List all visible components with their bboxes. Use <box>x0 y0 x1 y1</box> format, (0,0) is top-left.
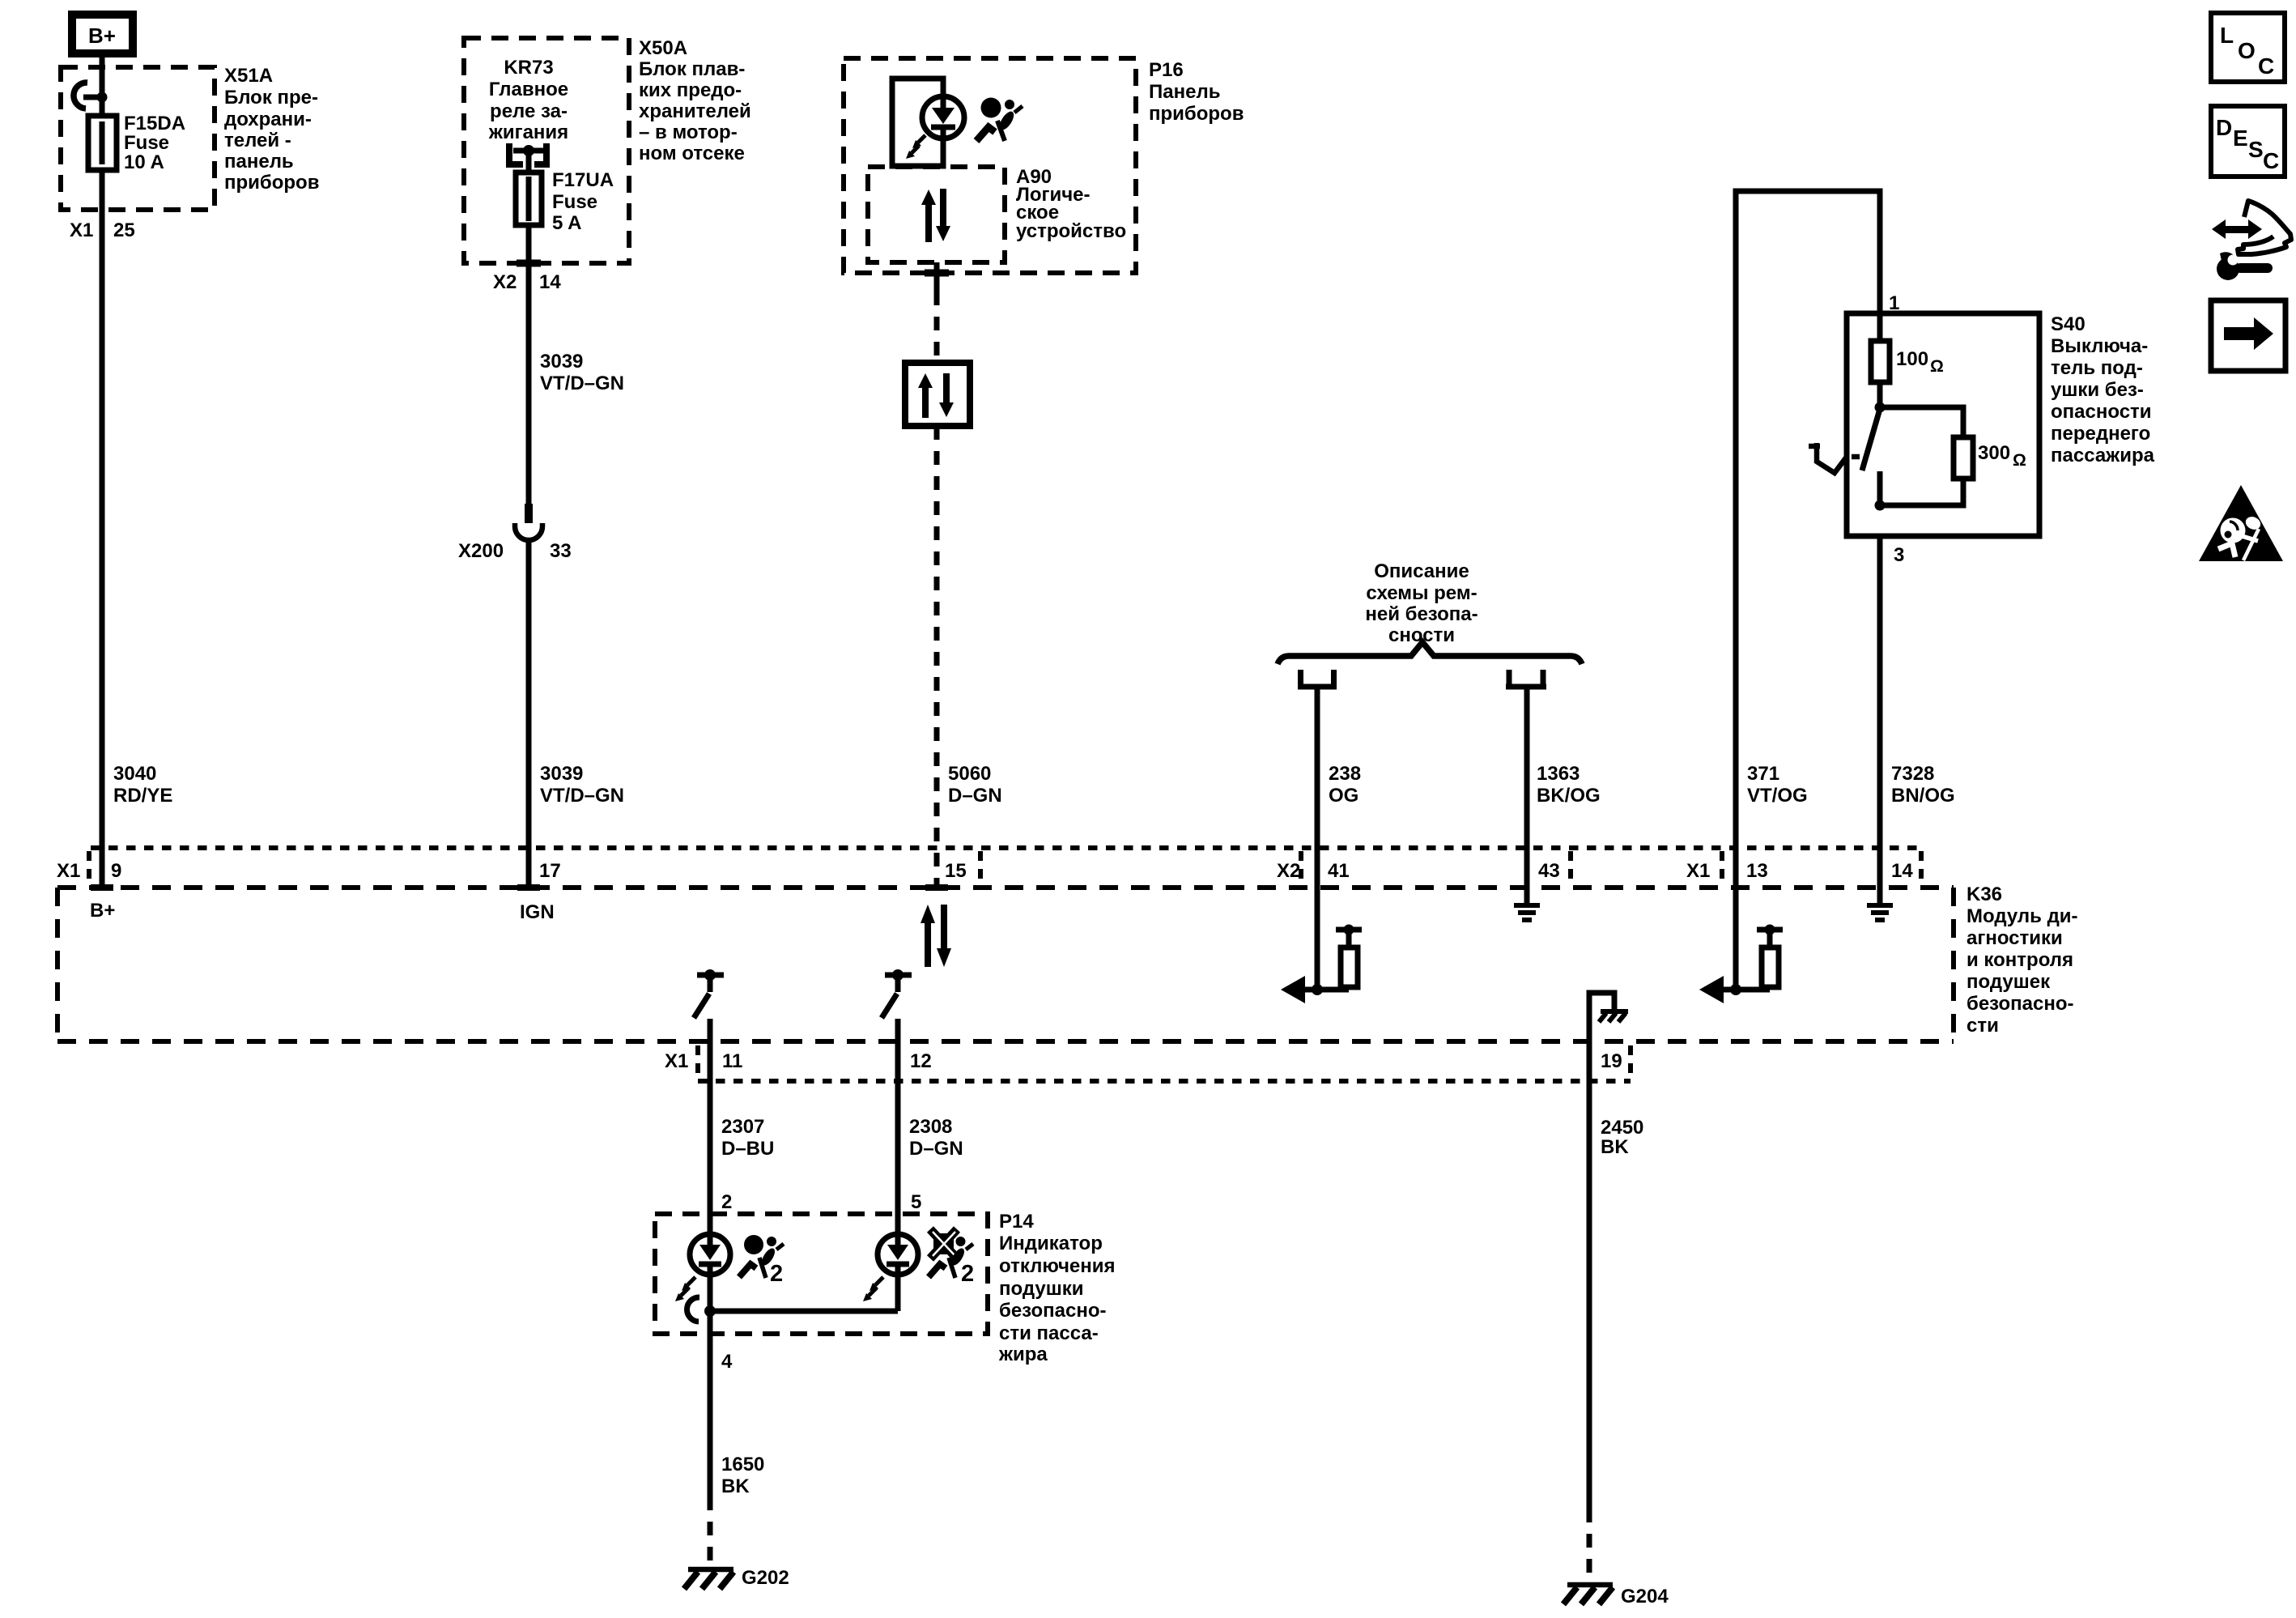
ground symbol under pin 43 <box>1514 888 1540 920</box>
relay KR73 contact terminal <box>509 143 546 164</box>
switch driver above pin 11 inside K36 <box>694 969 724 1041</box>
svg-text:Fuse: Fuse <box>124 132 169 154</box>
svg-text:реле за-: реле за- <box>490 100 568 122</box>
svg-text:ких предо-: ких предо- <box>639 79 742 101</box>
svg-text:C: C <box>2258 53 2274 79</box>
svg-text:IGN: IGN <box>520 901 555 923</box>
dashed wire 5060 D-GN down to K36 pin 15 <box>934 426 940 888</box>
svg-text:3039: 3039 <box>540 351 583 373</box>
switch arm S40 <box>1862 409 1880 470</box>
connector tick right of pin 19 <box>1628 1045 1633 1078</box>
svg-text:Ω: Ω <box>2013 451 2026 470</box>
svg-text:B+: B+ <box>88 23 116 48</box>
wire 2308 D-GN from pin 12 to P14 pin 5 <box>895 1041 901 1235</box>
svg-text:7328: 7328 <box>1891 763 1934 785</box>
airbag icon 2 (crossed) in P14 <box>929 1229 973 1278</box>
wire 1650 BK to ground G202 <box>708 1311 713 1566</box>
svg-text:S: S <box>2248 137 2264 162</box>
power symbol B+ <box>72 15 133 53</box>
svg-text:сти пасса-: сти пасса- <box>999 1322 1099 1344</box>
indicator P14 dashed box <box>655 1214 988 1334</box>
svg-text:агностики: агностики <box>1966 927 2063 949</box>
svg-text:VT/D–GN: VT/D–GN <box>540 373 624 394</box>
in-line connector X200 pin 33 <box>515 504 542 540</box>
svg-text:25: 25 <box>113 219 135 241</box>
svg-text:4: 4 <box>721 1351 733 1373</box>
fuse F17UA 5A <box>516 151 542 225</box>
ground symbol under pin 14 <box>1867 888 1893 920</box>
svg-text:41: 41 <box>1328 860 1350 882</box>
svg-text:жира: жира <box>998 1343 1048 1365</box>
connector tick right of pin 14 <box>1919 851 1924 884</box>
off-page bracket wire 238 <box>1298 670 1337 689</box>
svg-text:E: E <box>2233 126 2248 151</box>
svg-text:10 A: 10 A <box>124 151 164 173</box>
svg-text:O: O <box>2238 38 2256 63</box>
svg-text:2307: 2307 <box>721 1116 764 1138</box>
svg-text:371: 371 <box>1747 763 1779 785</box>
instrument panel P16 dashed box <box>844 58 1136 273</box>
svg-text:D–BU: D–BU <box>721 1138 774 1160</box>
svg-text:OG: OG <box>1329 785 1358 807</box>
svg-text:S40: S40 <box>2051 313 2086 335</box>
svg-text:Описание: Описание <box>1374 560 1469 582</box>
airbag warning triangle <box>2199 485 2283 561</box>
brace over seat belt wires <box>1278 642 1582 664</box>
wire 238 OG down to K36 pin 41 <box>1315 689 1320 888</box>
connector row dotted line (bottom) <box>698 1079 1631 1084</box>
LED indicator (airbag warning lamp) <box>906 96 964 159</box>
serial data symbol box <box>905 363 970 426</box>
svg-text:43: 43 <box>1538 860 1560 882</box>
switch driver above pin 12 inside K36 <box>882 969 912 1041</box>
fixed contact stub <box>1877 471 1883 505</box>
svg-text:13: 13 <box>1746 860 1768 882</box>
svg-text:X1: X1 <box>57 860 80 882</box>
junction node upper in S40 <box>1875 402 1886 413</box>
branch to resistor 300 ohm <box>1880 407 1973 505</box>
wire 3040 RD/YE down to K36 pin 9 <box>100 170 105 888</box>
connector tick left of pin 11 <box>695 1045 700 1078</box>
svg-text:X2: X2 <box>493 271 517 293</box>
logic device A90 dashed box <box>868 167 1005 262</box>
switch actuator symbol <box>1809 443 1860 473</box>
DESC reference box <box>2211 106 2285 177</box>
connector tick right of pin 43 <box>1568 851 1573 884</box>
svg-text:2308: 2308 <box>909 1116 952 1138</box>
internal resistor to voltage under pin 41 <box>1281 888 1362 1003</box>
wire 7328 BN/OG down to K36 pin 14 <box>1877 536 1883 888</box>
svg-text:X1: X1 <box>70 219 93 241</box>
wrench icon <box>2217 252 2273 280</box>
svg-text:дохрани-: дохрани- <box>224 109 312 130</box>
connector tick left of pin 41 <box>1299 851 1303 884</box>
svg-text:D: D <box>2216 115 2232 140</box>
airbag icon 1 in P14 <box>739 1235 784 1278</box>
connector tick left of pin 9 <box>87 851 91 884</box>
wire B+ down to fuse F15DA <box>100 57 105 118</box>
connector row dotted line (top) <box>91 845 1921 850</box>
svg-text:телей -: телей - <box>224 130 291 151</box>
LOC reference box <box>2211 13 2285 82</box>
svg-text:1650: 1650 <box>721 1454 764 1475</box>
svg-text:и контроля: и контроля <box>1966 949 2073 971</box>
svg-text:приборов: приборов <box>1149 103 1244 125</box>
ground G204 <box>1563 1585 1613 1604</box>
svg-text:BK: BK <box>721 1475 750 1497</box>
joining wire at bottom of lamps <box>704 1274 898 1317</box>
svg-text:5060: 5060 <box>948 763 991 785</box>
svg-text:100: 100 <box>1896 348 1928 370</box>
svg-text:P14: P14 <box>999 1211 1034 1233</box>
svg-text:3040: 3040 <box>113 763 156 785</box>
svg-text:– в мотор-: – в мотор- <box>639 121 738 143</box>
lamp return clip symbol <box>687 1297 699 1322</box>
wire 2307 D-BU from pin 11 to P14 pin 2 <box>708 1041 713 1234</box>
internal resistor to voltage under pin 13 <box>1699 888 1783 1003</box>
svg-text:тель под-: тель под- <box>2051 357 2143 379</box>
off-page bracket wire 1363 <box>1506 670 1546 689</box>
svg-text:жигания: жигания <box>488 121 568 143</box>
K36 module dashed box <box>57 888 1954 1041</box>
svg-text:5: 5 <box>911 1191 921 1213</box>
svg-text:2: 2 <box>721 1191 732 1213</box>
airbag icon in P16 <box>976 98 1023 142</box>
svg-text:безопасно-: безопасно- <box>1966 993 2074 1015</box>
fuse block X51A dashed box <box>61 67 215 210</box>
svg-text:X51A: X51A <box>224 65 273 87</box>
svg-text:15: 15 <box>945 860 967 882</box>
svg-text:Выключа-: Выключа- <box>2051 335 2148 357</box>
double arrow and component view icon <box>2212 201 2291 254</box>
wire 1363 BK/OG down to K36 pin 43 <box>1524 689 1530 888</box>
svg-text:G202: G202 <box>742 1567 789 1589</box>
svg-text:B+: B+ <box>90 900 115 922</box>
forward arrow box <box>2211 300 2285 371</box>
svg-text:схемы рем-: схемы рем- <box>1366 582 1477 604</box>
svg-text:Индикатор: Индикатор <box>999 1233 1103 1254</box>
svg-text:F15DA: F15DA <box>124 113 185 134</box>
ground G202 <box>684 1569 733 1589</box>
svg-text:BK: BK <box>1601 1136 1629 1158</box>
svg-text:3039: 3039 <box>540 763 583 785</box>
svg-text:Главное: Главное <box>489 79 568 100</box>
wire 2450 BK from pin 19 to ground G204 <box>1587 1041 1592 1582</box>
svg-text:F17UA: F17UA <box>552 169 614 191</box>
fuse box X50A dashed box <box>464 38 629 263</box>
svg-text:BN/OG: BN/OG <box>1891 785 1955 807</box>
svg-text:300: 300 <box>1978 442 2010 464</box>
svg-text:хранителей: хранителей <box>639 100 751 122</box>
svg-text:2450: 2450 <box>1601 1117 1643 1139</box>
svg-text:Панель: Панель <box>1149 81 1220 103</box>
svg-text:2: 2 <box>961 1261 974 1287</box>
svg-text:RD/YE: RD/YE <box>113 785 172 807</box>
svg-text:D–GN: D–GN <box>909 1138 963 1160</box>
svg-text:Fuse: Fuse <box>552 191 597 213</box>
svg-text:Ω: Ω <box>1930 357 1944 376</box>
wire from F17UA through X50A edge <box>526 225 532 505</box>
svg-text:Блок плав-: Блок плав- <box>639 58 745 80</box>
svg-text:G204: G204 <box>1621 1586 1669 1607</box>
svg-text:сти: сти <box>1966 1015 1999 1037</box>
svg-text:безопасно-: безопасно- <box>999 1300 1107 1322</box>
svg-text:2: 2 <box>770 1261 783 1287</box>
resistor 100 ohm <box>1871 313 1890 407</box>
svg-text:238: 238 <box>1329 763 1361 785</box>
svg-text:X200: X200 <box>458 540 504 562</box>
svg-text:Блок пре-: Блок пре- <box>224 87 318 109</box>
chassis ground lead above pin 19 inside K36 <box>1589 993 1628 1041</box>
clip terminal at X51A <box>74 83 108 109</box>
dashed wire from P16 to serial data box <box>934 292 940 363</box>
svg-text:X50A: X50A <box>639 37 687 59</box>
svg-text:1363: 1363 <box>1537 763 1580 785</box>
LED lamp 2 in P14 <box>863 1234 918 1301</box>
serial data arrows inside K36 below pin 15 <box>921 905 951 967</box>
wire end feet at K36 edge <box>91 884 948 891</box>
svg-text:приборов: приборов <box>224 172 319 194</box>
svg-text:5 A: 5 A <box>552 212 581 234</box>
svg-text:устройство: устройство <box>1016 220 1126 242</box>
svg-text:X1: X1 <box>1686 860 1710 882</box>
switch S40 box <box>1847 313 2039 536</box>
svg-text:17: 17 <box>539 860 561 882</box>
wire from K36 pin 13 up and over to S40 pin 1 <box>1736 191 1880 888</box>
svg-text:подушки: подушки <box>999 1278 1083 1300</box>
svg-text:C: C <box>2263 148 2279 173</box>
svg-text:ном отсеке: ном отсеке <box>639 143 745 164</box>
svg-text:подушек: подушек <box>1966 971 2051 993</box>
svg-text:отключения: отключения <box>999 1255 1115 1277</box>
connector tick right of pin 15 <box>978 851 983 884</box>
svg-text:BK/OG: BK/OG <box>1537 785 1601 807</box>
svg-text:панель: панель <box>224 151 294 172</box>
svg-text:ней безопа-: ней безопа- <box>1365 603 1478 625</box>
LED lamp 1 in P14 <box>675 1234 730 1301</box>
svg-text:VT/OG: VT/OG <box>1747 785 1808 807</box>
svg-text:X1: X1 <box>665 1050 688 1072</box>
indicator lamp housing <box>892 79 943 166</box>
svg-text:X2: X2 <box>1277 860 1300 882</box>
serial data arrows in A90 <box>921 189 950 242</box>
svg-text:L: L <box>2220 23 2234 48</box>
svg-text:опасности: опасности <box>2051 401 2152 423</box>
svg-text:3: 3 <box>1894 544 1904 566</box>
svg-text:14: 14 <box>539 271 561 293</box>
svg-text:VT/D–GN: VT/D–GN <box>540 785 624 807</box>
svg-text:11: 11 <box>722 1050 742 1072</box>
wire 3039 VT/D-GN down to K36 pin 17 <box>526 540 532 888</box>
svg-text:Модуль ди-: Модуль ди- <box>1966 905 2078 927</box>
svg-text:14: 14 <box>1891 860 1913 882</box>
svg-text:D–GN: D–GN <box>948 785 1002 807</box>
svg-text:пассажира: пассажира <box>2051 445 2155 466</box>
wire from A90 to P16 edge <box>934 262 940 292</box>
svg-text:P16: P16 <box>1149 59 1184 81</box>
svg-text:33: 33 <box>550 540 572 562</box>
fuse F15DA 10A <box>88 116 117 170</box>
svg-text:19: 19 <box>1601 1050 1622 1072</box>
svg-text:KR73: KR73 <box>504 57 553 79</box>
svg-text:9: 9 <box>111 860 121 882</box>
connector tick left of pin 13 <box>1720 851 1724 884</box>
svg-text:12: 12 <box>910 1050 932 1072</box>
svg-text:K36: K36 <box>1966 884 2002 905</box>
svg-text:переднего: переднего <box>2051 423 2150 445</box>
junction node lower in S40 <box>1875 500 1886 511</box>
svg-text:ушки без-: ушки без- <box>2051 379 2144 401</box>
